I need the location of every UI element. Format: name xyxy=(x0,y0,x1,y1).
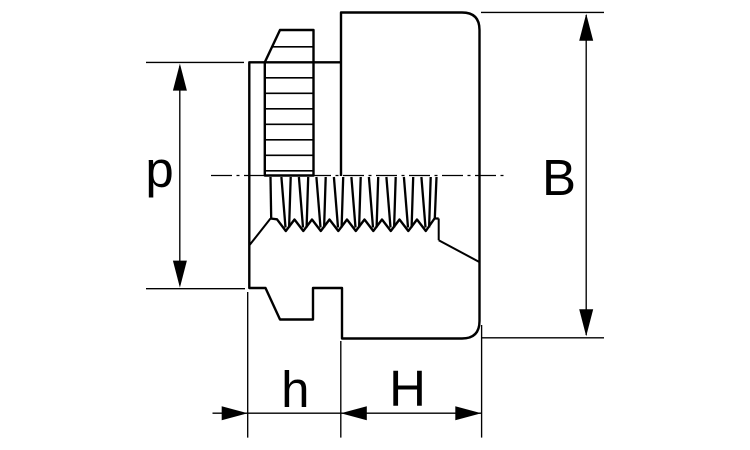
dimension B: extension lines xyxy=(481,12,604,337)
thread entry chamfer left xyxy=(250,219,271,245)
internal thread: root zigzag xyxy=(271,219,439,232)
svg-text:H: H xyxy=(389,360,426,417)
thread end chamfer right xyxy=(438,219,440,241)
dimension B: arrows xyxy=(579,14,593,41)
svg-text:B: B xyxy=(542,149,576,206)
centerline axis xyxy=(211,175,508,177)
svg-text:p: p xyxy=(145,141,173,198)
dimensions h / H : dimension line xyxy=(213,292,482,438)
dimension p: arrows xyxy=(173,64,187,91)
h/H arrows xyxy=(222,406,248,420)
dimension p: extension lines xyxy=(146,62,245,288)
thread flank wedge lines xyxy=(271,177,437,228)
knurled pilot outline xyxy=(265,30,314,176)
knurl lines xyxy=(265,47,314,171)
nut body outline (half section) xyxy=(249,13,479,339)
svg-text:h: h xyxy=(281,361,309,418)
